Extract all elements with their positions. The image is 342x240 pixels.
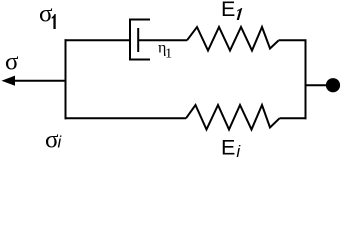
arrowhead of applied stress sigma: [2, 76, 16, 86]
label sigma1 subscript 1: [52, 14, 56, 29]
wire top branch left: [65, 39, 131, 41]
svg-text:σ: σ: [5, 49, 19, 76]
svg-text:σ: σ: [39, 1, 53, 28]
spring E1: [187, 27, 279, 51]
dashpot cylinder eta1: [130, 20, 150, 60]
svg-text:σi: σi: [45, 127, 62, 154]
wire bottom branch left: [65, 117, 187, 119]
dashpot piston: [137, 28, 139, 52]
wire left rail: [65, 39, 67, 119]
svg-text:E: E: [221, 0, 235, 21]
label E1 subscript italic 1: [237, 8, 243, 20]
spring Ei: [186, 105, 280, 130]
dashpot piston rod wire: [138, 39, 187, 41]
svg-text:η1: η1: [158, 39, 172, 61]
wire bottom branch right: [280, 117, 307, 119]
node junction dot: [326, 78, 340, 92]
wire top branch right: [279, 40, 306, 119]
wire node stub: [306, 84, 328, 86]
svg-text:Ei: Ei: [221, 135, 241, 161]
wire sigma arrow shaft: [14, 80, 66, 82]
